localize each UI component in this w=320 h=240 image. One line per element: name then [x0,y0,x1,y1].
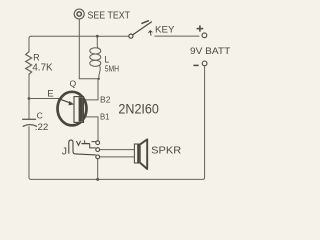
svg-text:B2: B2 [100,96,111,105]
wire top horizontal left section [31,35,129,37]
svg-text:5MH: 5MH [105,63,119,73]
speaker SPKR horn [140,139,147,169]
inductor L1 entry wire [97,36,99,49]
svg-text:KEY: KEY [155,24,175,34]
transistor Q1 base bar filled [79,97,83,121]
wire emitter tee [29,98,58,100]
battery minus sign [193,64,198,66]
transistor Q1 emitter arrow [58,98,71,103]
transistor Q1 B1 lead wire [84,117,98,141]
svg-text:4.7K: 4.7K [32,63,52,74]
svg-text:2N2I60: 2N2I60 [118,102,158,117]
svg-text:.22: .22 [35,122,49,133]
transistor Q1 B2 lead wire [84,79,98,100]
node inductor top junction dot [96,35,99,38]
inductor L1 loop1 [90,48,101,54]
node emitter junction dot [28,97,31,100]
terminal post (SEE TEXT) outer circle [74,9,84,19]
svg-text:9V BATT: 9V BATT [190,46,230,57]
wire left bottom to corner and bottom wire [29,66,205,179]
svg-text:C: C [37,111,43,121]
wire top horizontal right section [154,35,199,37]
wire stem to coil bottom [79,78,98,80]
jack J1 line from circle A left [91,141,95,143]
jack J1 tip contact segment [81,143,89,145]
svg-text:B1: B1 [100,113,110,122]
switch S1 arrow pointer [148,31,152,36]
transistor Q1 base bar outline [74,97,84,123]
jack J1 wire C down to bottom [97,159,99,180]
svg-text:R: R [33,53,40,63]
terminal post inner circle [77,12,81,16]
capacitor C1 curved bottom plate [23,125,36,127]
battery minus terminal circle [202,61,207,66]
transistor Q1 envelope circle [58,92,87,126]
jack J1 step to circle B [90,144,96,148]
jack J1 terminal circle C [96,155,100,159]
speaker SPKR coil dark bar [137,144,140,162]
jack J1 wire B to speaker [100,149,135,151]
battery plus sign [197,25,204,31]
switch S1 lever [133,22,152,35]
inductor L1 tail wire [99,65,101,79]
jack J1 plug loop [69,140,96,155]
svg-text:E: E [47,89,53,100]
speaker SPKR coil rect [134,144,140,163]
capacitor C1 top plate [23,118,36,120]
svg-text:Q: Q [70,79,77,89]
svg-text:J: J [62,145,67,157]
wire left vertical with top corner [29,36,31,51]
svg-text:SEE TEXT: SEE TEXT [88,10,131,22]
jack J1 spring V contact [76,141,80,145]
terminal post stem wire [78,19,80,79]
switch S1 key cap bar [142,21,148,24]
jack J1 terminal circle A [96,141,100,145]
battery plus terminal circle [202,33,207,38]
switch S1 (KEY) pivot circle [129,34,133,38]
node bottom junction dot [96,178,99,181]
node coil bottom dot [98,78,100,80]
resistor R1 zigzag [26,52,32,75]
jack J1 terminal circle B [96,148,100,152]
jack J1 tip tick [83,140,86,143]
inductor L1 loop3 [90,60,101,66]
wire left mid [28,74,30,118]
svg-text:SPKR: SPKR [151,146,181,157]
jack J1 wire C to speaker [100,156,135,158]
inductor L1 loop2 [90,54,101,60]
